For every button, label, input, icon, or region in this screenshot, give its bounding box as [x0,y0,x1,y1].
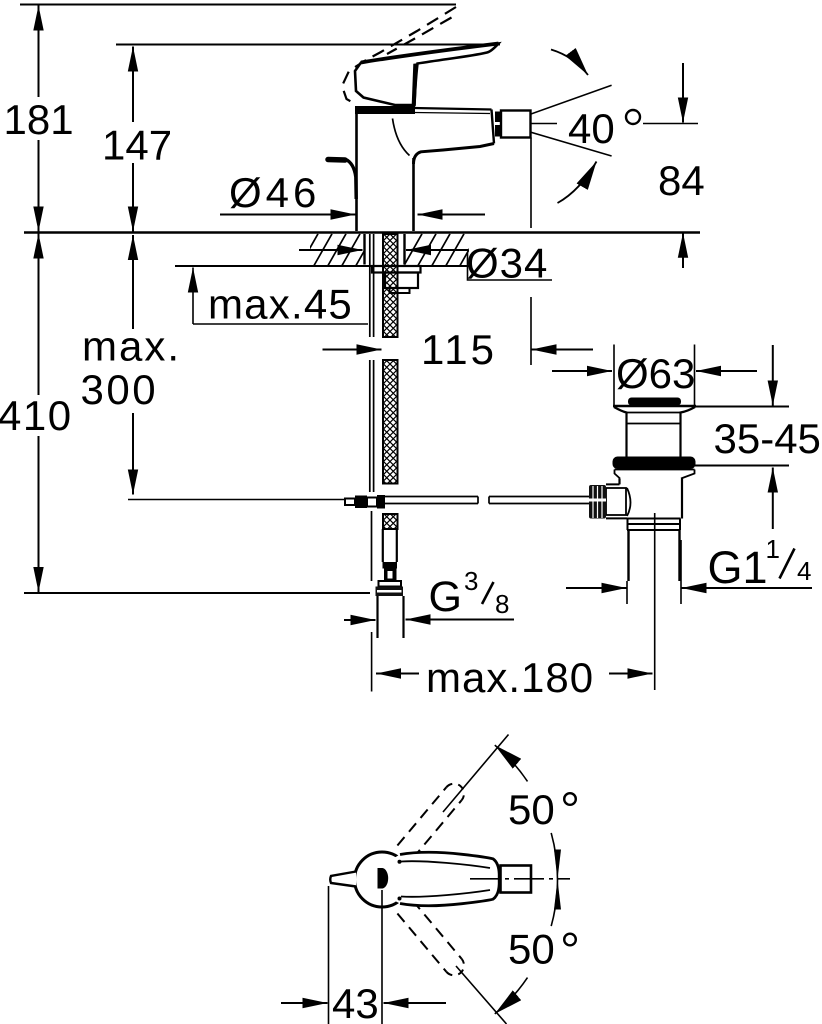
mounting nut [385,273,418,289]
G3/8 tube [378,596,404,638]
pop-up vertical rod [370,234,374,492]
svg-text:40: 40 [568,105,615,152]
knurled knob [589,485,606,519]
spout top edge [414,108,492,110]
flange bell sides [614,407,695,424]
dimension 115 [323,349,382,351]
dimension 43 arrows [281,1002,328,1004]
50 degree arcs [551,833,557,880]
dimension max.180 [376,673,419,675]
reference line y=499 (max.300 bottom) [128,499,350,501]
svg-text:84: 84 [658,157,705,204]
hose end nut [384,569,397,582]
aerator connector [495,112,501,123]
svg-text:max.45: max.45 [208,281,353,328]
svg-text:410: 410 [0,392,73,439]
dimension G1 1/4 [566,587,627,589]
cartridge mark [378,868,389,889]
dimension max.300 vertical line [132,235,134,329]
rubber gasket [613,457,696,470]
svg-text:G1: G1 [708,542,768,593]
dimension 43 extension lines [329,886,383,1024]
hose end dark band [383,562,398,569]
deck hatch right [404,234,478,266]
50 degree angle lines [443,735,509,1024]
reference line at solid handle tip [116,44,500,46]
top reference line (handle raised tip) [20,4,456,6]
svg-text:8: 8 [495,589,509,619]
svg-text:Ø63: Ø63 [616,350,695,397]
body top junction bar [355,106,415,114]
svg-text:181: 181 [4,96,74,143]
rod clamp [345,499,355,506]
svg-text:300: 300 [81,366,159,413]
svg-text:4: 4 [797,556,811,586]
tailpipe [629,530,680,581]
mounting washer [372,266,421,273]
svg-text:max.180: max.180 [426,654,594,701]
handle detail dots [398,860,402,864]
reference line y=593 (410 bottom) [24,592,370,594]
dimension G 3/8 [344,619,376,621]
svg-text:147: 147 [102,122,172,169]
rings below body [627,519,681,531]
svg-text:1: 1 [766,534,780,564]
dimension 147 vertical line [132,47,134,123]
hose lower crosshatch [383,514,398,529]
dimension 410 vertical line [38,234,40,396]
body outline [357,113,414,231]
dimension O34 arrows and leader [299,249,363,251]
deck bottom line [175,265,469,267]
spout bottom edge [414,144,495,165]
drain plug knob [628,398,681,406]
drain flange top [613,405,696,407]
svg-text:Ø46: Ø46 [229,169,320,216]
svg-text:43: 43 [332,980,379,1024]
aerator box [501,111,531,138]
dimension max.45 [192,268,194,325]
svg-text:50: 50 [508,926,555,973]
body circle [355,852,410,907]
handle inner contour [401,861,490,897]
deck hole edges [365,234,405,265]
label G1 1/4 [708,534,812,593]
spout right face [492,110,495,144]
centerline dash-dot [470,878,570,880]
G3/8 fitting rings [379,581,402,587]
pop-up rod knob [328,157,345,163]
dimension O63 [552,370,612,372]
handle (solid) [355,44,499,106]
flange under gasket [615,470,695,479]
dimension 181 vertical line [38,6,40,98]
dimension 35-45 [692,406,789,408]
drain body lower [620,479,683,519]
extension line spout tip x=531 [530,138,532,366]
svg-text:50: 50 [508,786,555,833]
dimension 84 [682,63,684,123]
spout wedge (top view) [330,872,356,887]
dashed rotated handle up 50 [397,784,464,859]
deck hatch left [300,234,374,266]
label G 3/8 [429,566,510,621]
degree rings [564,110,640,945]
drain body upper [627,424,681,458]
40 degree arcs [551,50,588,76]
aerator block (top view) [501,866,532,893]
side port [606,484,627,518]
svg-text:Ø34: Ø34 [466,240,548,287]
inner fillet curve body/spout [393,119,410,156]
dashed rotated handle down 50 [397,901,464,976]
flexible hose (threaded shank) [383,234,398,337]
svg-text:115: 115 [421,326,497,373]
handle (top view) [387,852,499,905]
svg-text:35-45: 35-45 [714,415,821,462]
horizontal pop-up rod [385,497,478,504]
dashed raised handle (side view) [342,7,456,105]
svg-text:G: G [429,573,462,621]
40 degree spray lines [503,85,612,156]
dimension O46 arrows [220,214,356,216]
deck top line [24,231,700,234]
hose smooth tube [383,529,397,562]
svg-text:max.: max. [82,323,181,370]
svg-text:3: 3 [464,566,478,596]
drain centerline extension [654,513,656,690]
